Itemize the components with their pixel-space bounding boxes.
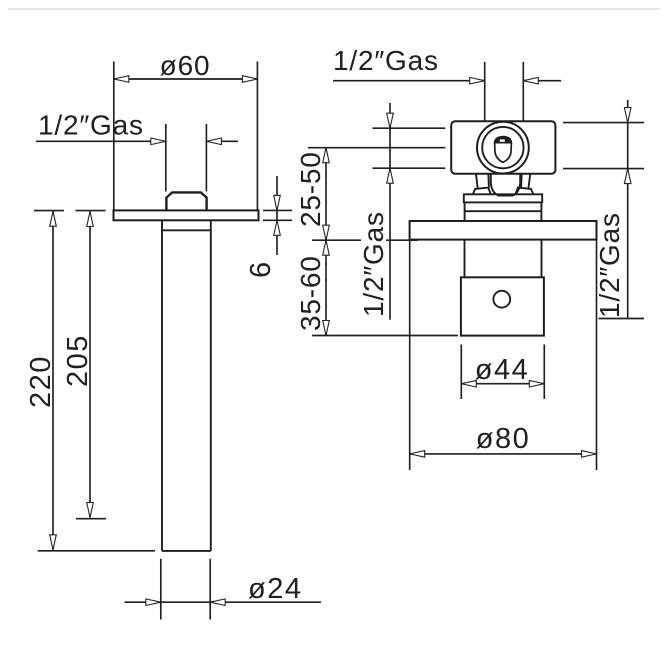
dimension Ø24 line and arrows — [125, 599, 321, 606]
svg-text:ø24: ø24 — [248, 573, 302, 605]
dimension 6 (flange thickness) — [263, 176, 292, 255]
svg-text:ø60: ø60 — [160, 50, 211, 81]
svg-text:ø44: ø44 — [475, 354, 529, 386]
svg-text:1/2″Gas: 1/2″Gas — [358, 211, 389, 317]
svg-text:220: 220 — [25, 355, 57, 408]
cartridge cap plate — [464, 194, 542, 202]
svg-text:1/2″Gas: 1/2″Gas — [38, 110, 144, 141]
dimension Ø60 line and arrows — [114, 76, 258, 83]
spout tube — [162, 220, 211, 551]
svg-text:25-50: 25-50 — [295, 151, 326, 227]
extension lines of top 1/2"Gas — [484, 62, 486, 121]
svg-text:205: 205 — [62, 334, 94, 387]
faint top border line — [8, 8, 660, 10]
svg-text:1/2″Gas: 1/2″Gas — [333, 45, 439, 76]
valve body — [451, 121, 555, 174]
flange plate (left unit) — [114, 210, 259, 220]
dimension 1/2"Gas (top) line and arrows — [333, 77, 561, 84]
mid cylinder — [465, 240, 542, 278]
inner circle — [482, 127, 523, 168]
connector nut — [166, 192, 206, 210]
svg-text:6: 6 — [245, 260, 277, 278]
neck collar — [491, 174, 520, 196]
dimension 25-50 / 35-60 shared line — [323, 148, 330, 336]
dimension Ø80 line and arrows — [410, 451, 597, 458]
dimension Ø44 extension lines — [460, 345, 462, 400]
cartridge stem (acorn) — [495, 137, 512, 163]
dimension Ø80 extension lines — [409, 240, 411, 470]
left port lines — [308, 128, 445, 168]
dimension 205 line and arrows — [76, 212, 106, 519]
screw hole — [493, 291, 510, 308]
dimension 220 line and arrows — [38, 211, 155, 551]
dimension Ø44 line and arrows — [461, 380, 544, 387]
extension line left of Ø60 — [113, 62, 115, 210]
extension ticks at flange top for 220/205 — [34, 210, 106, 212]
outer circle — [477, 122, 529, 174]
extension line right of Ø60 — [256, 62, 258, 210]
upper cylinder — [465, 202, 542, 221]
dimension Ø24 extension lines — [160, 559, 162, 620]
svg-text:1/2″Gas: 1/2″Gas — [594, 212, 625, 318]
flange plate (right unit) — [410, 221, 597, 240]
extension lines of 1/2"Gas — [165, 124, 167, 192]
dimension 1/2"Gas right port — [599, 100, 645, 319]
ticks for 25-50/35-60 — [312, 240, 458, 335]
svg-text:35-60: 35-60 — [295, 255, 326, 331]
right port lines — [563, 123, 644, 169]
dimension 1/2"Gas line and arrows — [36, 138, 238, 145]
svg-text:ø80: ø80 — [476, 423, 530, 455]
lower body box — [461, 277, 544, 335]
dimension 1/2"Gas left port — [387, 103, 394, 320]
neck legs — [473, 174, 533, 194]
